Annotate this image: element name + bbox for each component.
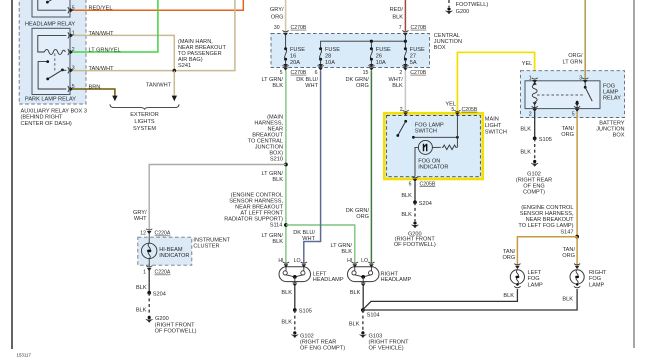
ground G103	[360, 331, 410, 351]
svg-text:FOG: FOG	[528, 276, 540, 282]
wire BLK fog switch to S204	[401, 182, 415, 203]
svg-text:HEADLAMP: HEADLAMP	[313, 277, 344, 283]
splice S147	[575, 235, 579, 239]
left headlamp HI pin	[278, 258, 289, 267]
connector C270B pin 2 (bottom)	[399, 65, 426, 76]
svg-text:BLK: BLK	[281, 290, 292, 296]
svg-text:LIGHTS: LIGHTS	[134, 119, 154, 125]
svg-text:G200: G200	[456, 9, 470, 15]
svg-text:FUSE: FUSE	[410, 47, 425, 53]
svg-text:FOG: FOG	[589, 276, 601, 282]
park lamp relay pin 3	[68, 66, 75, 74]
svg-text:CLUSTER: CLUSTER	[193, 243, 219, 249]
splice S114	[284, 223, 288, 227]
fog lamp switch	[396, 116, 458, 148]
wire BLK left headlamp to S105	[281, 286, 294, 310]
svg-text:FUSE: FUSE	[290, 47, 305, 53]
wire BLK dashed to G103	[349, 310, 363, 331]
svg-text:S204: S204	[419, 201, 432, 207]
fog lamp relay dashed link	[537, 94, 583, 96]
svg-text:(BEHIND RIGHT: (BEHIND RIGHT	[21, 115, 64, 121]
svg-text:S104: S104	[367, 312, 380, 318]
right fog lamp	[570, 264, 607, 289]
svg-text:ORG: ORG	[356, 214, 369, 220]
svg-text:RIGHT: RIGHT	[589, 270, 607, 276]
svg-text:BOX: BOX	[613, 132, 625, 138]
svg-text:COMPT): COMPT)	[523, 189, 545, 195]
svg-text:S210: S210	[270, 157, 283, 163]
svg-text:153117: 153117	[17, 353, 32, 358]
svg-text:YEL: YEL	[445, 102, 456, 108]
svg-text:RELAY: RELAY	[603, 95, 621, 101]
svg-text:BLK: BLK	[136, 285, 147, 291]
svg-text:C205B: C205B	[462, 107, 478, 113]
svg-text:SWITCH: SWITCH	[485, 129, 507, 135]
svg-text:EXTERIOR: EXTERIOR	[130, 112, 159, 118]
svg-text:ORG: ORG	[271, 15, 284, 21]
svg-text:1: 1	[529, 75, 532, 81]
svg-text:ORG: ORG	[561, 132, 574, 138]
svg-text:30: 30	[274, 25, 280, 31]
wire TAN/ORG to left fog lamp	[502, 237, 577, 265]
wire GRY/ORG	[270, 0, 286, 31]
wire RED/YEL	[73, 0, 244, 12]
battery junction box	[521, 71, 625, 118]
fuse 16 20A	[283, 36, 305, 68]
svg-text:PARK LAMP RELAY: PARK LAMP RELAY	[25, 96, 76, 102]
svg-text:S241: S241	[178, 63, 191, 69]
svg-text:NEAR BREAKOUT: NEAR BREAKOUT	[235, 205, 283, 211]
splice S105 (relay)	[533, 137, 552, 144]
svg-text:YEL: YEL	[522, 61, 533, 67]
instrument cluster caption	[193, 237, 230, 249]
wire BLK dashed to G200 (left)	[136, 293, 149, 316]
S241 harness note	[178, 39, 226, 69]
svg-text:BLK: BLK	[281, 319, 292, 325]
wire LT GRN/YEL	[73, 0, 158, 53]
splice S104	[361, 308, 380, 318]
svg-text:BLK: BLK	[272, 177, 283, 183]
svg-text:HEADLAMP RELAY: HEADLAMP RELAY	[25, 22, 75, 28]
splice S210	[284, 163, 288, 167]
connector pin 2 (fog switch)	[400, 107, 409, 116]
connector pin 5 (relay bottom)	[572, 106, 580, 117]
svg-text:INDICATOR: INDICATOR	[418, 164, 448, 170]
svg-text:5: 5	[451, 107, 454, 113]
ground G200 (top)	[446, 0, 489, 15]
svg-text:3: 3	[579, 75, 582, 81]
connector C270B pin 5 (bottom)	[280, 65, 307, 76]
headlamp relay pin 5	[68, 5, 75, 13]
ground G102 (left headlamp)	[291, 331, 345, 351]
svg-text:LO: LO	[361, 258, 368, 264]
svg-text:AUXILIARY RELAY BOX 3: AUXILIARY RELAY BOX 3	[21, 108, 87, 114]
S147 harness note	[518, 205, 574, 235]
wire BLK relay to S105	[520, 112, 534, 139]
svg-text:BLK: BLK	[503, 293, 514, 299]
svg-text:C220A: C220A	[155, 231, 171, 237]
wire BLK cluster to S204	[136, 271, 149, 293]
wire TAN/ORG relay to S147	[561, 112, 577, 237]
svg-text:BLK: BLK	[349, 321, 360, 327]
right headlamp bottom connector	[360, 281, 366, 287]
wire BRN	[73, 84, 118, 101]
svg-text:WHT: WHT	[305, 83, 318, 89]
splice S105 (left headlamp)	[293, 308, 312, 315]
wire DK GRN/ORG (right headlamp LO)	[345, 71, 371, 263]
wire YEL	[445, 52, 534, 110]
svg-text:LAMP: LAMP	[589, 282, 605, 288]
svg-text:RED/: RED/	[390, 7, 404, 13]
central junction box	[271, 34, 430, 68]
svg-text:15: 15	[363, 70, 369, 76]
svg-text:CENTER OF DASH): CENTER OF DASH)	[21, 121, 72, 127]
svg-text:S105: S105	[299, 309, 312, 315]
svg-text:12: 12	[140, 231, 146, 237]
right page border	[633, 0, 635, 348]
svg-text:S114: S114	[270, 223, 283, 229]
svg-text:FOOTWELL): FOOTWELL)	[456, 2, 489, 8]
connector C205B pin 6 (fog switch bottom)	[409, 177, 436, 188]
svg-text:ORG/: ORG/	[568, 53, 583, 59]
svg-text:TAN/WHT: TAN/WHT	[146, 83, 172, 89]
svg-text:GRY/: GRY/	[270, 7, 284, 13]
wire TAN/ORG to right fog lamp	[562, 237, 577, 265]
wire BLK right fog lamp to S104	[363, 289, 577, 310]
svg-text:BLK: BLK	[520, 127, 531, 133]
svg-text:OF VEHICLE): OF VEHICLE)	[369, 345, 404, 351]
wire ORG/LT GRN	[563, 0, 586, 78]
auxiliary relay box caption	[21, 108, 87, 127]
svg-text:SWITCH: SWITCH	[415, 129, 437, 135]
ground G200 (left)	[146, 316, 197, 335]
svg-text:OF ENG COMPT): OF ENG COMPT)	[300, 345, 345, 351]
svg-text:2: 2	[400, 107, 403, 113]
svg-text:S204: S204	[153, 291, 166, 297]
svg-text:5A: 5A	[410, 60, 417, 66]
svg-text:BLK: BLK	[392, 15, 403, 21]
svg-text:RED/YEL: RED/YEL	[89, 6, 113, 12]
connector pin 3 (relay top)	[579, 75, 588, 83]
svg-text:LO: LO	[294, 258, 301, 264]
svg-text:WHT: WHT	[134, 216, 147, 222]
svg-text:26: 26	[376, 53, 382, 59]
fuse 26 10A	[369, 41, 391, 67]
battery junction box caption	[596, 120, 625, 138]
svg-text:7: 7	[399, 25, 402, 31]
headlamp relay (top, cut off)	[25, 0, 75, 28]
svg-text:MAIN: MAIN	[485, 116, 499, 122]
park lamp relay actuator dashed link	[54, 54, 56, 73]
park lamp relay pin 1	[68, 31, 75, 39]
connector C205B pin 5 (fog switch)	[451, 107, 477, 116]
svg-text:WHT: WHT	[302, 236, 315, 242]
svg-text:G200: G200	[155, 316, 169, 322]
splice S204 (fog switch)	[413, 200, 432, 206]
svg-text:BLK: BLK	[350, 290, 361, 296]
wire LT GRN/BLK branch to right headlamp	[286, 225, 355, 263]
fog lamp relay switch	[575, 81, 592, 109]
svg-text:AT LEFT FRONT: AT LEFT FRONT	[240, 211, 283, 217]
park lamp relay	[25, 28, 76, 102]
central junction box caption	[434, 33, 462, 51]
svg-text:BLK: BLK	[401, 212, 412, 218]
wire DK BLU/WHT (left headlamp LO)	[293, 71, 320, 263]
left headlamp LO pin	[294, 258, 307, 267]
svg-text:C270B: C270B	[291, 70, 307, 76]
connector C270B pin 7	[399, 25, 427, 36]
park lamp relay pin 2	[68, 47, 75, 55]
svg-text:2: 2	[399, 70, 402, 76]
svg-text:SENSOR HARNESS,: SENSOR HARNESS,	[229, 198, 283, 204]
right headlamp HI pin	[347, 258, 358, 267]
svg-text:(RIGHT FRONT: (RIGHT FRONT	[155, 322, 196, 328]
svg-text:BLK: BLK	[136, 308, 147, 314]
left headlamp	[279, 267, 344, 283]
svg-text:LEFT: LEFT	[528, 270, 542, 276]
svg-text:FUSE: FUSE	[376, 47, 391, 53]
park lamp relay coil	[38, 35, 67, 54]
svg-text:28: 28	[325, 53, 331, 59]
park lamp relay pin 5	[68, 84, 75, 92]
exterior lights system label	[130, 112, 159, 132]
CJB internal bus	[321, 40, 407, 49]
left fog lamp	[510, 264, 543, 289]
svg-text:S105: S105	[539, 137, 552, 143]
svg-text:C270B: C270B	[411, 25, 427, 31]
wire RED/BLK	[390, 0, 406, 31]
svg-text:5: 5	[572, 112, 575, 118]
left page border	[11, 0, 13, 349]
svg-text:S147: S147	[560, 229, 573, 235]
fog lamp relay coil	[532, 82, 537, 109]
svg-text:LIGHT: LIGHT	[485, 123, 502, 129]
park lamp relay switch	[38, 60, 66, 89]
hi-beam indicator	[142, 234, 190, 266]
svg-text:HI: HI	[278, 258, 283, 264]
svg-text:C270B: C270B	[291, 25, 307, 31]
right headlamp LO pin	[361, 258, 374, 267]
instrument cluster box	[138, 237, 192, 265]
wire WHT/BLK (fog switch feed)	[389, 71, 406, 111]
svg-text:LT GRN/YEL: LT GRN/YEL	[89, 47, 121, 53]
svg-text:5: 5	[280, 70, 283, 76]
svg-text:TAN/WHT: TAN/WHT	[89, 66, 115, 72]
svg-text:2: 2	[529, 112, 532, 118]
connector pin 1 (relay top)	[529, 75, 538, 83]
fog on indicator	[415, 140, 457, 176]
ground G200 (fog switch)	[394, 221, 436, 247]
splice S204 (left)	[147, 291, 166, 297]
svg-text:TAN/WHT: TAN/WHT	[89, 31, 115, 37]
svg-text:HEADLAMP: HEADLAMP	[381, 277, 412, 283]
svg-text:27: 27	[410, 53, 416, 59]
connector pin 6 (bottom)	[315, 65, 324, 76]
svg-text:INDICATOR: INDICATOR	[159, 253, 189, 259]
S210 harness note	[248, 115, 284, 163]
svg-text:20A: 20A	[290, 60, 300, 66]
svg-text:1: 1	[143, 270, 146, 276]
connector C270B pin 30	[274, 25, 307, 36]
wire BLK dashed to G102 (left)	[281, 310, 294, 331]
svg-text:TO LEFT FOG LAMP): TO LEFT FOG LAMP)	[518, 223, 573, 229]
main light switch caption	[485, 116, 507, 135]
splice S241	[173, 69, 177, 73]
svg-text:10A: 10A	[325, 60, 335, 66]
wire BLK dashed to G102 (relay)	[520, 138, 534, 159]
svg-text:ORG: ORG	[356, 83, 369, 89]
LT GRN/BLK label mid	[261, 171, 283, 183]
right headlamp	[348, 267, 412, 283]
svg-text:BLK: BLK	[272, 239, 283, 245]
svg-text:6: 6	[409, 181, 412, 187]
svg-text:OF FOOTWELL): OF FOOTWELL)	[394, 242, 436, 248]
svg-text:6: 6	[315, 70, 318, 76]
ground G102 (relay)	[516, 160, 552, 196]
left headlamp bottom connector	[292, 281, 298, 287]
svg-text:(ENGINE CONTROL: (ENGINE CONTROL	[231, 192, 283, 198]
S114 harness note	[224, 192, 283, 228]
wire TAN/WHT pin3	[73, 0, 235, 72]
auxiliary relay box 3 (dashed, light blue)	[19, 0, 86, 104]
svg-text:BLK: BLK	[341, 249, 352, 255]
svg-text:LT GRN: LT GRN	[563, 60, 583, 66]
svg-text:C270B: C270B	[410, 70, 426, 76]
wire BLK dashed to G200 (fog switch)	[401, 202, 415, 221]
svg-text:C220A: C220A	[155, 270, 171, 276]
svg-text:ORG: ORG	[562, 253, 575, 259]
connector C220A pin 1	[143, 266, 171, 276]
svg-text:LAMP: LAMP	[528, 282, 544, 288]
svg-text:SYSTEM: SYSTEM	[133, 126, 156, 132]
svg-text:C205B: C205B	[420, 181, 436, 187]
fuse 28 10A	[318, 47, 340, 67]
connector C220A pin 12	[140, 229, 171, 237]
wire BLK right headlamp to S104	[350, 286, 363, 310]
svg-text:BLK: BLK	[562, 296, 573, 302]
svg-text:BLK: BLK	[520, 150, 531, 156]
LT GRN/BLK label lower left	[261, 233, 283, 245]
wire LT GRN/BLK (left headlamp HI feed)	[261, 71, 285, 263]
svg-text:16: 16	[290, 53, 296, 59]
fog lamp relay box	[525, 81, 621, 109]
exterior lights brace	[110, 104, 179, 109]
wire TAN/WHT drop to exterior lights	[146, 71, 177, 102]
fog lamp switch highlight box (yellow)	[384, 113, 483, 179]
svg-text:10A: 10A	[376, 60, 386, 66]
svg-text:OF FOOTWELL): OF FOOTWELL)	[155, 329, 197, 335]
svg-text:FUSE: FUSE	[325, 47, 340, 53]
svg-text:HI: HI	[347, 258, 352, 264]
svg-text:BOX: BOX	[434, 45, 446, 51]
svg-text:BRN: BRN	[89, 84, 101, 90]
wire GRY/WHT to instrument cluster	[133, 165, 286, 230]
fuse 27 5A	[403, 36, 425, 68]
wire TAN/WHT pin1	[73, 31, 175, 71]
connector pin 15 (bottom)	[363, 65, 375, 76]
wire BLK left fog lamp to S104	[363, 289, 518, 310]
svg-text:ORG: ORG	[502, 255, 515, 261]
svg-text:BLK: BLK	[392, 83, 403, 89]
connector pin 2 (relay bottom)	[529, 106, 538, 117]
svg-text:BLK: BLK	[401, 193, 412, 199]
svg-text:BLK: BLK	[272, 83, 283, 89]
